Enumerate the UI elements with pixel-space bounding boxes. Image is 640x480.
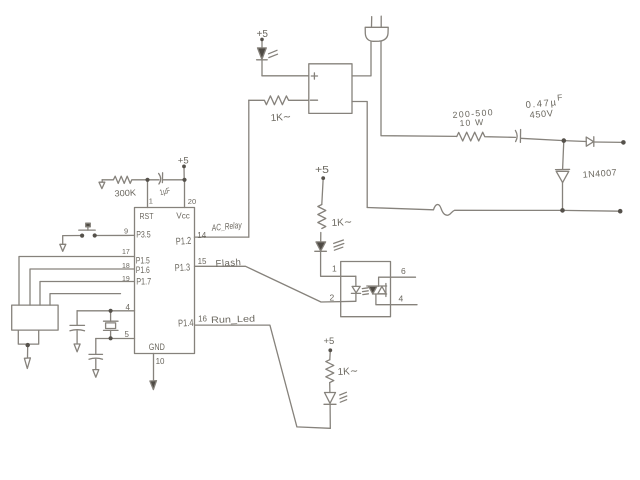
svg-text:+5: +5 xyxy=(178,156,189,167)
svg-text:4: 4 xyxy=(126,303,131,312)
svg-text:+5: +5 xyxy=(257,29,269,40)
svg-text:P1.2: P1.2 xyxy=(175,236,192,248)
svg-text:1: 1 xyxy=(332,263,337,273)
svg-text:450V: 450V xyxy=(529,108,554,120)
svg-text:P1.5: P1.5 xyxy=(136,255,150,265)
svg-text:P3.5: P3.5 xyxy=(136,230,151,240)
svg-text:9: 9 xyxy=(124,227,128,236)
svg-text:P1.3: P1.3 xyxy=(174,262,190,274)
svg-text:+5: +5 xyxy=(324,336,335,347)
svg-text:15: 15 xyxy=(198,257,207,266)
svg-text:16: 16 xyxy=(198,314,207,323)
svg-text:RST: RST xyxy=(140,211,155,221)
svg-text:17: 17 xyxy=(122,249,130,256)
svg-text:18: 18 xyxy=(122,263,130,270)
svg-text:Flash: Flash xyxy=(215,257,241,270)
svg-text:1: 1 xyxy=(149,197,153,206)
svg-text:6: 6 xyxy=(401,266,406,276)
svg-text:1K∼: 1K∼ xyxy=(270,112,291,124)
svg-text:19: 19 xyxy=(122,276,130,283)
svg-text:20: 20 xyxy=(188,197,196,206)
svg-text:10 W: 10 W xyxy=(459,117,484,128)
svg-text:300K: 300K xyxy=(114,187,136,198)
svg-text:+5: +5 xyxy=(315,165,330,176)
svg-text:4: 4 xyxy=(399,294,404,304)
svg-text:14: 14 xyxy=(197,231,206,240)
svg-text:1K∼: 1K∼ xyxy=(337,366,358,378)
svg-text:5: 5 xyxy=(125,330,130,339)
svg-text:GND: GND xyxy=(149,342,165,352)
svg-text:10: 10 xyxy=(156,357,165,366)
svg-text:P1.6: P1.6 xyxy=(136,265,150,275)
svg-text:Run_Led: Run_Led xyxy=(211,314,255,326)
svg-text:Vcc: Vcc xyxy=(176,210,190,220)
svg-text:2: 2 xyxy=(330,292,335,302)
svg-text:1K∼: 1K∼ xyxy=(331,217,352,229)
svg-text:P1.7: P1.7 xyxy=(136,277,151,287)
svg-text:P1.4: P1.4 xyxy=(178,318,194,330)
